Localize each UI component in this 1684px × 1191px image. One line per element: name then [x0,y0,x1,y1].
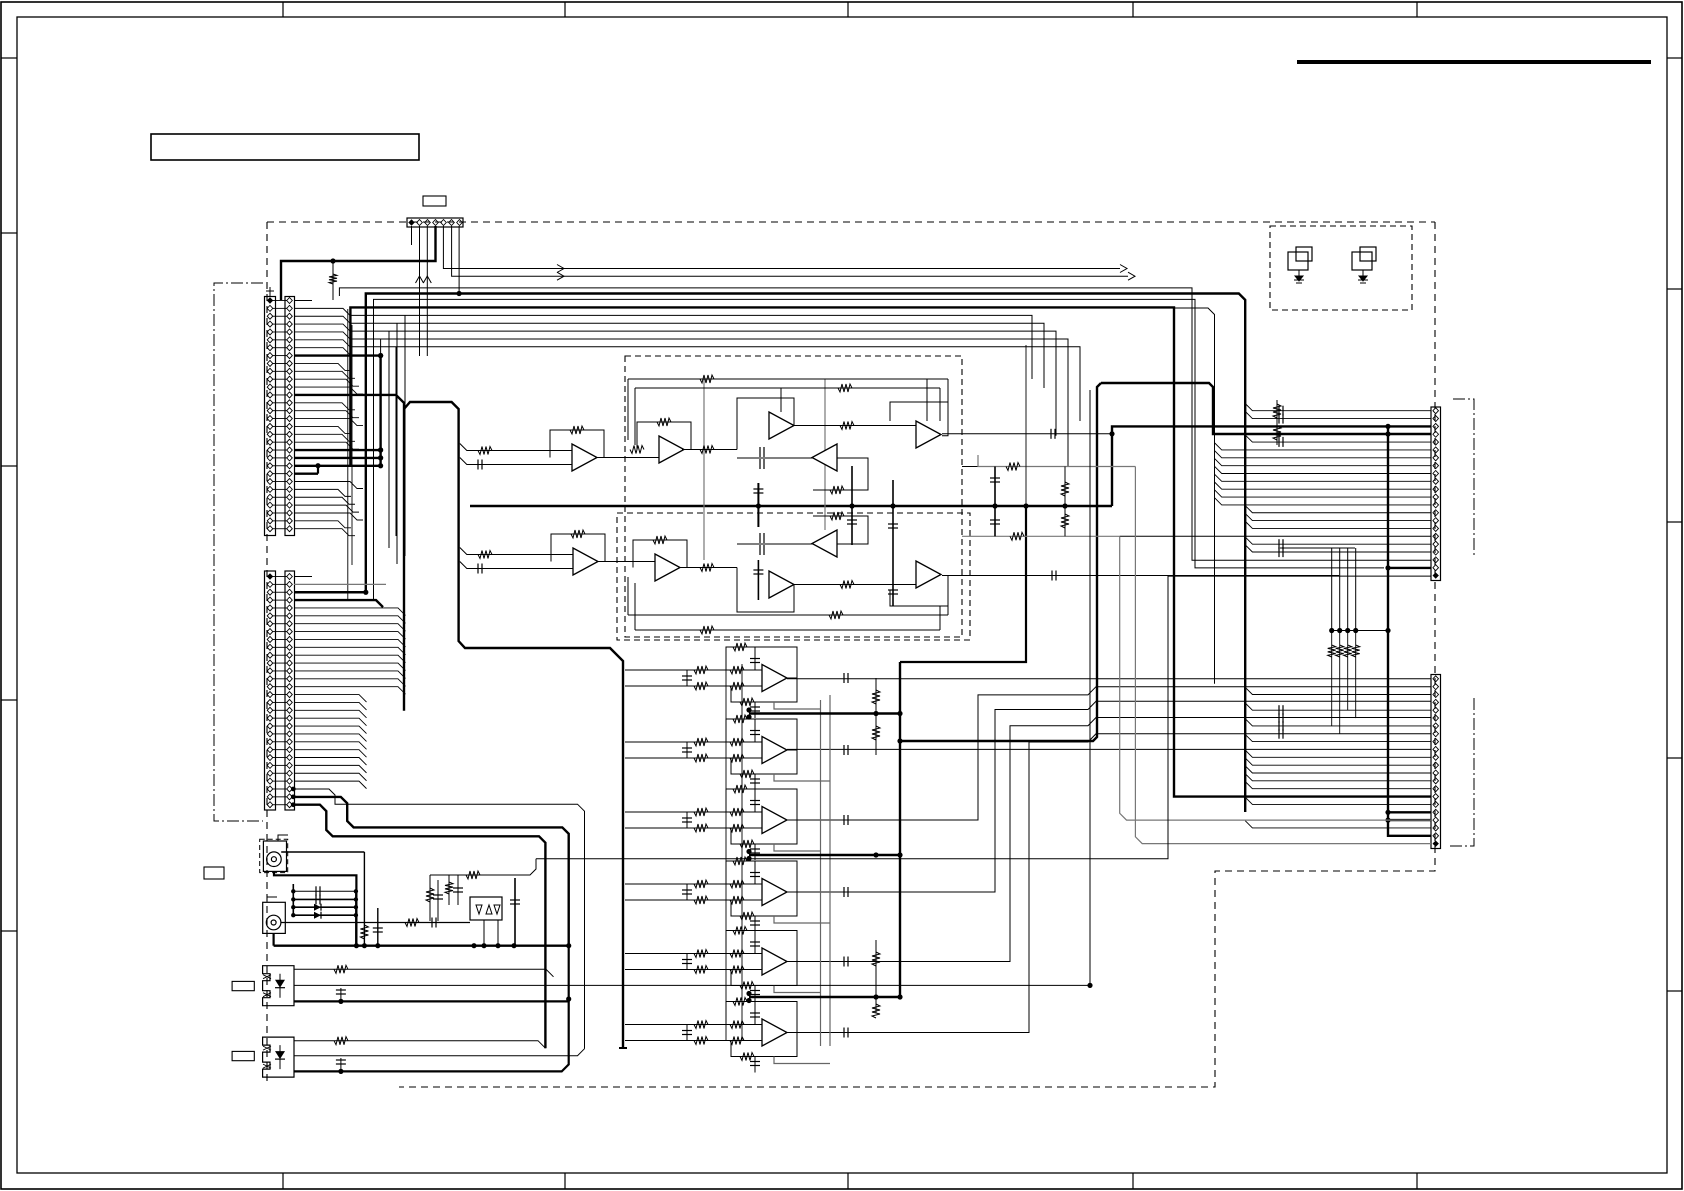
connector CN201 pin B9 [287,360,293,366]
RCA jack J1 ring [267,852,282,867]
RCA jack J2 ring [266,915,281,930]
op-amp U26 input wire upper [625,1024,762,1026]
wire CN301 row1 tap from fan bus [1245,404,1431,411]
wire CN201 row 5 link [273,331,288,333]
connector CN202 pin A26 [267,770,273,776]
capacitor top loop U24 [754,861,756,884]
connector CN202 pin B16 [287,692,293,698]
op-amp U22 gray branch [774,774,830,781]
connector CN201 pin A8 [267,353,273,359]
connector CN201 pin B25 [287,486,293,492]
wire CN202 row17 curtain [294,702,367,710]
capacitor mark on CN301 feed [1278,406,1280,416]
connector CN201 pin B15 [287,408,293,414]
capacitor mark on CN301 feed [1278,437,1280,447]
wire CN201 row14 jog [294,403,355,410]
thick CN302 row18 feed [1388,819,1431,821]
connector CN201 pin B11 [287,376,293,382]
connector CN302 pin 20 [1433,825,1439,831]
connector CN301 pin 3 [1433,423,1439,429]
connector CN302 body [1431,675,1441,849]
connector CN201 pin A16 [267,416,273,422]
junction y997 d [897,994,902,999]
connector CN301 body [1431,407,1441,581]
connector CN201 pin A13 [267,392,273,398]
thick junction column x380 [379,356,381,466]
wire CN201 row7 jog [294,348,350,355]
connector CN202 pin B29 [287,794,293,800]
resistor cluster bottom rail [1331,630,1388,632]
wire CN202 row 13 link [273,670,288,672]
coupling cluster right rail [355,891,357,945]
connector CN202 pin A9 [267,636,273,642]
wire CN202 row16 curtain [294,695,367,703]
connector CN202 pin B27 [287,778,293,784]
capacitor top loop U22 [754,719,756,742]
connector CN301 pin 12 [1433,494,1439,500]
connector CN201 pin B27 [287,502,293,508]
capacitor top loop U21 [754,647,756,670]
op-amp U25 input wire lower [625,969,762,971]
wire CN201 row 12 link [273,386,288,388]
connector CN202 pin B26 [287,770,293,776]
gray vertical feed x1135 [1135,467,1431,844]
junction resistor R31 [1329,628,1334,633]
connector CN302 pin 6 [1433,715,1439,721]
connector CN301 pin 14 [1433,510,1439,516]
wire CN201 row1 stub [294,300,312,302]
wire CN301 row14 tap from fan bus [1245,506,1431,513]
connector CN202 pin B25 [287,762,293,768]
wire CN202 row 2 link [273,583,288,585]
feedback rail lower 2 [635,629,940,631]
wire CN302 row17 feed tap [1245,797,1431,804]
wire CN202 row9 curtain [294,639,406,647]
connector CN201 pin B4 [287,321,293,327]
opto coupler PC2 body [263,1037,294,1077]
wire CN201 row 21 link [273,457,288,459]
capacitor between inputs U21 [686,670,688,686]
wire CN302 row5 feed tap [1245,703,1431,710]
connector CN201 pin B16 [287,416,293,422]
RCA jack J1 dashed outline [260,839,288,872]
wire CN201 row 26 link [273,496,288,498]
wire PC1 out mid [294,984,1090,986]
wire CN302 row12 feed tap [1245,758,1431,765]
connector CN302 pin 16 [1433,794,1439,800]
junction row3 x1388 [1385,424,1390,429]
resistor pair x1277 [1276,400,1278,445]
junction resistor R33 [1345,628,1350,633]
connector CN202 pin B15 [287,684,293,690]
wire PC1 out top [294,969,554,977]
op-amp U3 [769,412,794,439]
wire U8 loop [737,568,794,613]
junction x484 [481,943,486,948]
connector CN202 pin B3 [287,589,293,595]
thick route P from CN202 row29 [293,797,568,946]
op-amp U21 [762,665,787,692]
wire CN301 row11 tap from T [1215,482,1432,489]
coupling cluster left rail [292,884,294,915]
wire CN201 row23 riser [317,466,319,474]
thick stack bus y855 [749,854,900,856]
connector CN202 pin A2 [267,581,273,587]
capacitor mark on CN302 feed [1278,713,1280,723]
op-amp U24 gray branch [774,916,830,923]
connector CN202 pin B7 [287,621,293,627]
wire CN202 row14 curtain [294,679,406,687]
capacitor mark on CN301 feed [1278,539,1280,549]
connector CN202 pin A16 [267,692,273,698]
wire CN202 row6 curtain [294,616,406,624]
capacitor top loop U26 [754,1002,756,1025]
protection link to mute rail [536,576,1431,859]
wire CN201 row 16 link [273,418,288,420]
connector CN302 pin 11 [1433,754,1439,760]
wire PC2 out top [294,1041,546,1049]
resistor R34 vertical [1355,548,1357,631]
capacitor mark on CN301 feed [1278,547,1280,557]
wire U9 caps input [737,543,813,545]
op-amp U23 [762,807,787,834]
wire CN301 row18 tap from fan bus [1245,537,1431,544]
border zone tick right 5 [1667,990,1682,992]
connector CN302 pin 1 [1433,676,1439,682]
wire CN302 row20 tap [1245,821,1431,828]
wire CN301 row15 tap from fan bus [1245,513,1431,520]
wire CN202 row 26 link [273,772,288,774]
connector CN202 pin B12 [287,660,293,666]
wire CN202 row1 stub [294,576,312,578]
connector CN201 pin B23 [287,471,293,477]
wire U4 caps input [737,457,813,459]
wire CN201 row4 jog [294,324,350,331]
gray bus right [829,695,831,1046]
junction mid bus x1026 [1023,503,1028,508]
op-amp U21 input wire upper [625,669,762,671]
connector CN202 pin A25 [267,762,273,768]
wire CN202 row13 curtain [294,671,406,679]
op-amp U2 [659,436,684,463]
connector CN202 pin B19 [287,715,293,721]
connector CN301 pin 10 [1433,478,1439,484]
wire CN201 row 25 link [273,488,288,490]
junction y855 c [873,852,878,857]
wire CN302 row13 feed tap [1245,766,1431,773]
wire CN201 row17 jog [294,426,351,433]
wire CN201 row 3 link [273,315,288,317]
feedback rail lower 1 [628,614,948,616]
opto coupler PC2 input chevron 1 [263,1046,271,1050]
wire U3 loop [737,398,794,450]
junction resistor R32 [1337,628,1342,633]
wire CN201 row19 jog [294,442,359,449]
connector CN302 pin 18 [1433,809,1439,815]
capacitor between inputs U25 [686,954,688,970]
wire CN202 row20 curtain [294,726,367,734]
wire CN201 row26 jog [294,497,355,504]
border zone tick right 3 [1667,521,1682,523]
wire CN201 row 17 link [273,425,288,427]
thick loop trace top edge [404,402,623,1048]
wire CN202 row27 curtain [294,781,367,789]
wire CN201 row12 jog [294,387,363,394]
junction coupling 1 right [354,889,358,893]
capacitor C42 [315,894,317,904]
RCA jack J1 body [263,841,286,871]
wire U6 output [598,561,655,563]
connector CN202 pin B20 [287,723,293,729]
connector CN101 pin 2 [417,220,423,226]
connector CN201 pin A11 [267,376,273,382]
connector CN201 pin A9 [267,360,273,366]
connector CN201 pin A18 [267,431,273,437]
opto coupler PC2 diode [279,1045,281,1069]
junction CN201 row20 [378,447,383,452]
wire PC2 out mid [294,1049,585,1056]
capacitor C41 [315,886,317,896]
connector CN301 pin 20 [1433,557,1439,563]
gray vertical feed x1119 [1120,536,1431,820]
capacitor between inputs U26 [686,1025,688,1041]
RCA jack J2 body [263,902,286,933]
diode D44 [314,912,321,919]
wire CN202 row 19 link [273,717,288,719]
junction E drop on x900 [897,738,902,743]
op-amp U23 output wire [787,687,1431,820]
RCA jack J1 tab [278,835,288,841]
border zone tick top 5 [1416,2,1418,17]
connector CN202 pin A3 [267,589,273,595]
wire CN201 row9 jog [294,363,351,370]
wire CN301 row12 tap from T [1215,490,1432,497]
border zone tick bottom 5 [1416,1173,1418,1189]
connector CN201 pin A10 [267,368,273,374]
junction coupling 4 left [291,913,295,917]
connector CN202 pin B17 [287,699,293,705]
arrowhead net2 [1128,272,1135,280]
protection cap x515 [514,878,516,946]
thick riser x1112 [1112,426,1431,506]
capacitor mark on CN301 feed [1278,414,1280,424]
tap vertical L7 [388,331,390,548]
wire CN302 row14 feed tap [1245,774,1431,781]
connector CN301 pin 4 [1433,431,1439,437]
connector CN202 pin B13 [287,668,293,674]
thick stack bus y713 [749,712,900,714]
connector CN201 pin B28 [287,510,293,516]
junction y946 g [566,943,571,948]
connector CN201 pin A24 [267,479,273,485]
transformer module T1 outer square [1288,252,1308,270]
thick vertical x1388 [1388,426,1431,835]
connector CN202 pin A6 [267,613,273,619]
protection cap x458 [457,875,459,905]
wire CN301 row8 tap from T [1215,458,1432,465]
connector CN202 pin A18 [267,707,273,713]
op-amp U24 top loop [726,861,797,892]
wire below resistor R32 [1339,631,1341,734]
wire x377 riser [377,908,379,946]
op-amp U24 input wire lower [625,899,762,901]
wire CN201 row 14 link [273,402,288,404]
wire below resistor R31 [1331,631,1333,726]
wire U6 input upper [460,548,573,555]
protection riser x484 [483,920,485,946]
wire CN202 row 27 link [273,780,288,782]
opto coupler PC1 body [263,966,294,1006]
wire CN202 row 23 link [273,749,288,751]
op-amp U7 [655,554,680,581]
connector CN201 pin A30 [267,526,273,532]
junction mid bus 4 [992,503,997,508]
junction y946 e [495,943,500,948]
wire CN202 row 5 link [273,607,288,609]
thin link L8 to column [380,339,382,356]
connector CN201 pin A3 [267,313,273,319]
connector CN101 header body [407,218,463,227]
wire CN202 row 20 link [273,725,288,727]
wire CN202 row 16 link [273,694,288,696]
thin vertical x1026 upper [1025,345,1027,506]
op-amp U22 [762,737,787,764]
junction y713 d [897,711,902,716]
border zone tick right 1 [1667,57,1682,59]
op-amp U23 feedback loop [731,820,797,844]
wire CN202 row 12 link [273,662,288,664]
thick bus E elbow y383 [1101,383,1431,434]
connector CN202 pin A30 [267,802,273,808]
wire CN202 row26 curtain [294,773,367,781]
wire CN202 row5 curtain [294,608,406,616]
junction x1388 row20 [1385,565,1390,570]
thick bus C via x350 [350,307,1431,796]
wire CN202 row 1 link [273,576,288,578]
wire vertical band 2 [351,325,353,565]
capacitor below U21 [754,702,756,718]
capacitor mark on CN302 feed [1278,705,1280,715]
connector CN101 pin 1 [408,219,414,225]
wire CN201 row 8 link [273,355,288,357]
wire CN301 row10 tap from T [1215,474,1432,481]
connector CN201 pin A2 [267,305,273,311]
connector CN301 pin 7 [1433,455,1439,461]
border zone tick right 4 [1667,757,1682,759]
wire CN101 pin5 to arrow line [443,226,1120,269]
border zone tick bottom 3 [847,1173,849,1189]
wire CN101 pin7 drop to bus [458,226,460,294]
arrowhead net1 [1120,265,1127,273]
opto coupler PC2 label box [232,1051,254,1060]
junction mid bus 1 [756,503,761,508]
connector CN302 pin 22 [1433,840,1439,846]
op-amp U10 [916,561,941,588]
wire CN201 row11 jog [294,379,359,386]
wire CN302 row3 feed tap [1245,687,1431,694]
op-amp U25 top loop [726,931,797,962]
border zone tick bottom 2 [564,1173,566,1189]
title underline bar [1297,60,1651,64]
junction x568 y1001 [566,996,571,1001]
border zone tick bottom 1 [282,1173,284,1189]
wire CN202 row 18 link [273,709,288,711]
connector CN201 pin B20 [287,447,293,453]
junction mid bus 3 [890,503,895,508]
wire CN201 row22 thick [294,465,381,467]
wire CN201 row20 thick [294,449,381,451]
connector CN202 pin A27 [267,778,273,784]
junction coupling 1 left [291,889,295,893]
wire CN202 row 15 link [273,686,288,688]
wire CN201 row 22 link [273,465,288,467]
wire CN202 row10 curtain [294,647,406,655]
connector CN201 pin B26 [287,494,293,500]
junction coupling 2 right [354,897,358,901]
wire CN202 row7 curtain [294,624,406,632]
wire CN201 row 7 link [273,347,288,349]
connector CN301 pin 17 [1433,533,1439,539]
filter block dashed box lower [617,513,970,640]
connector CN301 pin 8 [1433,463,1439,469]
connector CN201 pin B24 [287,479,293,485]
wire CN201 row 4 link [273,323,288,325]
wire CN201 row 2 link [273,307,288,309]
riser x825 gray [824,379,826,530]
connector CN302 pin 10 [1433,746,1439,752]
wire U6 input lower [460,562,573,569]
ladder column x742 [741,664,743,1040]
feedback rail upper 2 [635,387,940,389]
RCA jack J1 center [271,857,276,862]
resistor R31 vertical [1331,548,1333,631]
op-amp U26 output wire [787,734,1431,1033]
border zone tick top 1 [282,2,284,17]
wire PC2 out bottom thick [294,1001,569,1071]
capacitor mark on CN302 feed [1278,729,1280,739]
thin vertical T x1214 [470,308,1215,684]
thick loop trace left side x404 [294,395,404,711]
wire CN202 row21 curtain [294,734,367,742]
feedback rail lower ends [627,577,629,615]
op-amp U25 input wire upper [625,953,762,955]
transformer module T1 inner square [1296,247,1312,261]
connector CN202 pin A24 [267,755,273,761]
wire CN201 row3 jog [294,316,350,323]
wire CN202 row 17 link [273,701,288,703]
op-amp U22 top loop [726,719,797,750]
connector CN202 pin A12 [267,660,273,666]
wire CN101 pin2 drop [419,226,421,356]
connector CN201 pin B22 [287,463,293,469]
connector CN201 pin A17 [267,423,273,429]
connector CN202 pin B24 [287,755,293,761]
connector CN201 pin B1 [287,298,293,304]
op-amp U8 [769,571,794,598]
junction y997 c [873,994,878,999]
diode D43 [314,904,321,911]
connector CN301 pin 5 [1433,439,1439,445]
op-amp U23 input wire lower [625,827,762,829]
RCA jack J2 center [271,920,276,925]
wire CN301 row5 tap from fan bus [1245,435,1431,442]
capacitor mark on CN302 feed [1278,721,1280,731]
wire CN302 row15 feed tap [1245,782,1431,789]
op-amp U21 gray branch [774,702,821,709]
junction on x380 column [378,447,383,452]
connector CN201 pin A29 [267,518,273,524]
wire CN201 row 18 link [273,433,288,435]
